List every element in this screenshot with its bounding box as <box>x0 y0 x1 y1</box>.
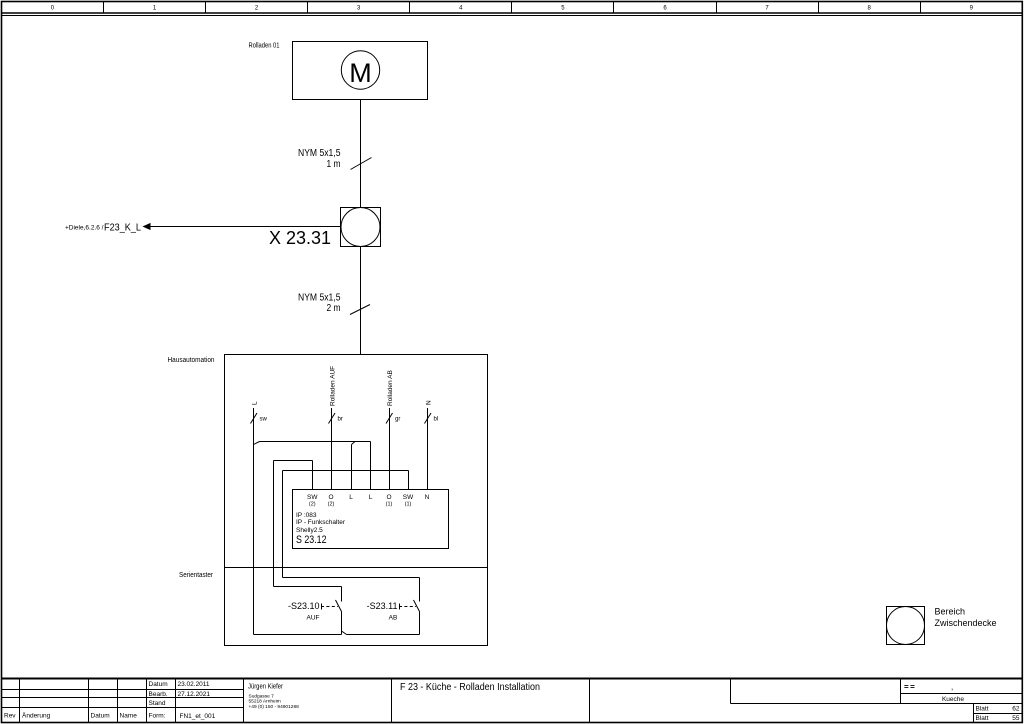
pushbutton S23.10 AUF <box>274 587 342 635</box>
svg-text:AB: AB <box>389 615 398 622</box>
svg-text:(1): (1) <box>405 502 412 508</box>
svg-text:55218 Arnheim: 55218 Arnheim <box>249 699 281 705</box>
svg-text:Form:: Form: <box>149 713 166 720</box>
svg-text:,: , <box>951 683 953 692</box>
svg-text:1: 1 <box>153 6 157 12</box>
svg-text:Hausautomation: Hausautomation <box>168 357 215 364</box>
svg-text:bl: bl <box>434 417 439 423</box>
device S 23.12 Shelly2.5 <box>293 490 449 549</box>
svg-text:N: N <box>425 494 430 501</box>
svg-text:-S23.11: -S23.11 <box>367 601 398 611</box>
svg-text:X 23.31: X 23.31 <box>269 228 331 248</box>
wire motor to X23.31 <box>360 100 362 208</box>
wire Rolladen AUF br <box>329 366 343 490</box>
svg-text:8: 8 <box>868 6 872 12</box>
svg-text:Bearb.: Bearb. <box>149 691 168 698</box>
interruption point arrow +Diele,6.2.6 / F23_K_L <box>65 222 151 234</box>
svg-text:SW: SW <box>403 494 414 501</box>
motor M1 Rolladen 01 <box>249 42 428 100</box>
svg-text:Änderung: Änderung <box>22 712 51 720</box>
svg-text:L: L <box>369 494 373 501</box>
pushbutton S23.11 AB <box>283 578 420 635</box>
svg-text:-S23.10: -S23.10 <box>288 601 320 611</box>
svg-text:Stand: Stand <box>149 700 166 707</box>
svg-text:2 m: 2 m <box>327 303 341 314</box>
svg-text:(1): (1) <box>386 502 393 508</box>
svg-text:O: O <box>386 494 391 501</box>
wire bottom bus <box>254 631 420 635</box>
wire Rolladen AB gr <box>386 370 400 489</box>
svg-text:Blatt: Blatt <box>976 706 989 713</box>
wire SW2 to S23.10 <box>274 461 313 587</box>
svg-text:3: 3 <box>357 6 361 12</box>
svg-text:2: 2 <box>255 6 259 12</box>
svg-text:+Diele,6.2.6 /: +Diele,6.2.6 / <box>65 225 104 232</box>
svg-text:SW: SW <box>307 494 318 501</box>
wire from interruption point to X23.31 <box>144 226 341 228</box>
svg-text:62: 62 <box>1012 706 1020 713</box>
svg-text:S 23.12: S 23.12 <box>296 534 327 546</box>
svg-text:Rolladen AUF: Rolladen AUF <box>330 366 337 406</box>
svg-text:4: 4 <box>459 6 463 12</box>
junction box X 23.31 <box>269 208 381 249</box>
cable slash NYM 5x1,5 2m <box>350 305 370 315</box>
svg-text:IP :083: IP :083 <box>296 512 317 519</box>
svg-text:Blatt: Blatt <box>976 715 989 722</box>
svg-text:N: N <box>426 400 433 405</box>
svg-text:Jürgen Kiefer: Jürgen Kiefer <box>248 684 284 691</box>
svg-text:55: 55 <box>1012 715 1020 722</box>
svg-text:Rolladen 01: Rolladen 01 <box>249 43 280 50</box>
wire L sw <box>251 401 268 635</box>
svg-text:br: br <box>338 417 343 423</box>
svg-text:Zwischendecke: Zwischendecke <box>935 618 997 628</box>
svg-text:Sudgasse 7: Sudgasse 7 <box>249 694 275 700</box>
svg-text:FN1_et_001: FN1_et_001 <box>180 713 216 720</box>
svg-text:Rev: Rev <box>4 713 16 720</box>
svg-text:9: 9 <box>970 6 974 12</box>
svg-text:F 23 - Küche - Rolladen Instal: F 23 - Küche - Rolladen Installation <box>400 681 540 693</box>
svg-text:sw: sw <box>260 417 268 423</box>
svg-text:Name: Name <box>120 713 138 720</box>
svg-text:F23_K_L: F23_K_L <box>104 222 141 234</box>
svg-text:==: == <box>904 683 916 692</box>
svg-text:Serientaster: Serientaster <box>179 572 214 579</box>
svg-text:(2): (2) <box>309 502 316 508</box>
svg-text:IP - Funkschalter: IP - Funkschalter <box>296 519 346 526</box>
wire X23.31 to Hausautomation <box>360 247 362 355</box>
svg-text:Rolladen AB: Rolladen AB <box>387 370 394 406</box>
wire N bl <box>425 400 439 490</box>
svg-text:NYM 5x1,5: NYM 5x1,5 <box>298 148 341 159</box>
enclosure Hausautomation <box>168 355 488 646</box>
wire SW1 to S23.11 <box>283 471 409 578</box>
svg-text:L: L <box>252 401 259 405</box>
svg-text:+49 (0) 150 - 94901288: +49 (0) 150 - 94901288 <box>249 704 300 710</box>
cable slash NYM 5x1,5 1m <box>351 158 372 170</box>
svg-text:NYM 5x1,5: NYM 5x1,5 <box>298 293 341 304</box>
svg-text:0: 0 <box>51 6 55 12</box>
svg-text:Bereich: Bereich <box>935 607 966 617</box>
svg-text:6: 6 <box>663 6 667 12</box>
legend Bereich Zwischendecke <box>887 607 997 645</box>
svg-text:1 m: 1 m <box>327 159 341 170</box>
cable label NYM 5x1,5 1 m <box>298 148 341 170</box>
svg-text:O: O <box>328 494 333 501</box>
svg-text:Datum: Datum <box>149 681 168 688</box>
svg-text:27.12.2021: 27.12.2021 <box>178 691 211 698</box>
svg-text:7: 7 <box>765 6 769 12</box>
cable label NYM 5x1,5 2 m <box>298 293 341 315</box>
svg-text:Shelly2.5: Shelly2.5 <box>296 527 323 534</box>
svg-text:AUF: AUF <box>307 615 320 622</box>
svg-text:5: 5 <box>561 6 565 12</box>
TITLE BLOCK <box>2 679 1023 723</box>
svg-text:(2): (2) <box>328 502 335 508</box>
wire L branch to device L pins <box>254 442 371 490</box>
svg-text:Kueche: Kueche <box>942 696 964 703</box>
svg-text:23.02.2011: 23.02.2011 <box>178 681 210 688</box>
svg-text:Datum: Datum <box>91 713 110 720</box>
svg-text:L: L <box>349 494 353 501</box>
svg-text:gr: gr <box>395 417 400 423</box>
svg-text:M: M <box>349 58 372 88</box>
